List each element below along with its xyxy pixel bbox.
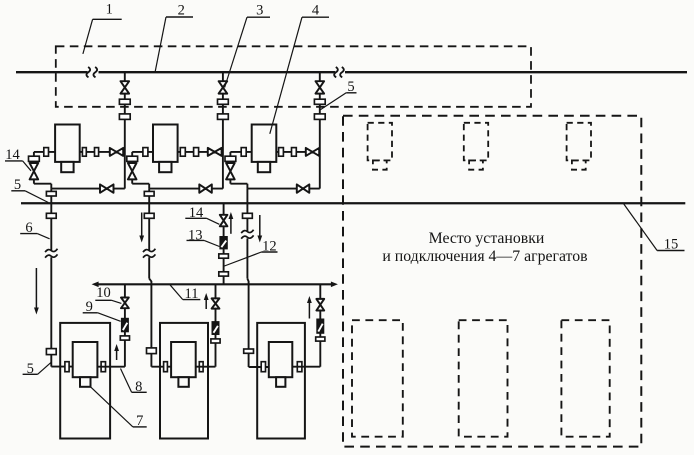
dashed future foundation outline 5 (bottom row) — [459, 320, 508, 437]
flow arrow down beside column 2 — [139, 213, 144, 243]
dashed future foundation outline 4 (bottom row) — [352, 320, 403, 437]
svg-text:и подключения 4—7 агрегатов: и подключения 4—7 агрегатов — [382, 248, 587, 265]
label 7 with leader to bottom pump 1 — [91, 387, 147, 429]
flange at bottom pump 1 suction — [65, 362, 69, 372]
flange above lower main on column 1 (pos.5) — [46, 191, 56, 196]
dashed future pump unit outline 6 (top row) — [567, 123, 591, 170]
bottom pump unit 2 foundation outline (pos.7 area) — [160, 323, 208, 439]
valve on bottom riser 1 (pos.10) — [121, 298, 129, 309]
valve on riser 2 (pos.3) — [219, 81, 228, 93]
flange pair on riser 3 upper (pos.5) — [314, 99, 325, 104]
flange at bottom pump 3 discharge — [297, 362, 302, 372]
pipe: discharge riser of bottom pump 2 — [196, 284, 216, 366]
pipe: suction side of pump 1 — [34, 151, 55, 153]
check valve on bypass column (pos.13) — [220, 237, 227, 249]
label 4 with leader to pump 3 — [270, 2, 329, 134]
flange on bypass column lower (pos.12) — [219, 272, 229, 276]
valve on bottom riser 3 (pos.10) — [316, 299, 324, 311]
pipe: bypass column from lower main to manifold — [223, 203, 225, 284]
bottom pump unit 1 foundation outline (pos.7 area) — [60, 323, 110, 439]
flange on left branch of unit 3 — [225, 156, 236, 161]
pipe: top pressure main, middle segment — [99, 71, 336, 73]
flange above lower main on column 2 — [144, 191, 154, 196]
valve on riser 1 (pos.3) — [121, 81, 130, 93]
label 5 bottom with leader to column 1 flange — [23, 361, 52, 377]
pump unit 3 body (pos.4) — [252, 125, 277, 173]
valve on left branch of unit 3 (pos.14) — [226, 163, 235, 179]
label 3 with leader to riser valve 2 — [225, 2, 270, 87]
flange on column 1 near bottom pump (pos.5) — [46, 349, 56, 355]
label 10 with leader to bottom riser 1 valve — [95, 285, 121, 304]
label 5 left with leader to lower-main junction — [11, 177, 48, 202]
pipe: collecting segment of unit 2 to riser — [149, 188, 223, 190]
pipe: left branch column of unit 3 — [230, 152, 247, 189]
label 9 with leader to bottom check valve 1 — [83, 299, 121, 321]
valve on discharge of pump 3 — [306, 148, 319, 156]
flange on bottom riser 1 — [120, 336, 129, 340]
flange at pump 3 discharge outer — [292, 148, 297, 157]
valve on left branch of unit 2 (pos.14) — [128, 163, 137, 179]
pipe: suction side of pump 3 — [230, 151, 251, 153]
label 14 middle with leader to bypass valve — [185, 205, 219, 225]
valve on discharge of pump 2 — [208, 148, 222, 156]
flange on left branch of unit 1 — [29, 156, 40, 161]
flange at bottom pump 2 discharge — [199, 362, 203, 372]
bottom pump unit 2 motor body — [171, 342, 196, 387]
svg-text:10: 10 — [96, 285, 111, 301]
annotation text: installation place for units 4-7 — [382, 230, 587, 265]
valve on collecting segment of unit 3 — [297, 184, 310, 192]
pump unit 1 body (pos.4) — [55, 125, 80, 173]
label 2 with leader to top main — [155, 2, 193, 71]
flange at pump 2 discharge outer — [194, 148, 199, 157]
pipe: down-column of unit 3 to bottom pump 3 — [247, 189, 268, 367]
svg-text:Место установки: Место установки — [429, 230, 545, 247]
flange pair on riser 1 lower (pos.5) — [119, 114, 130, 120]
pipe: collecting segment of unit 3 to riser — [247, 188, 319, 190]
pipe: discharge side of pump 3 — [276, 151, 320, 153]
svg-text:1: 1 — [106, 2, 113, 18]
dashed future pump unit outline 5 (top row) — [464, 123, 488, 170]
bottom pump unit 1 motor body — [73, 342, 98, 387]
pipe: suction side of pump 2 — [132, 151, 153, 153]
check valve on bottom riser 3 (pos.9) — [317, 319, 323, 333]
flange on bottom riser 3 — [316, 337, 325, 341]
flange at pump 2 suction — [143, 148, 148, 157]
flange below lower main on column 2 — [144, 213, 154, 218]
flange pair on riser 2 upper (pos.5) — [218, 99, 229, 104]
label 11 with leader to manifold — [170, 285, 200, 302]
bottom pump unit 3 motor body — [269, 342, 293, 387]
flange at pump 3 discharge inner — [279, 148, 284, 157]
valve on bottom riser 2 (pos.10) — [212, 298, 220, 308]
flange on column 3 near bottom pump — [244, 349, 254, 353]
flow arrow up beside bypass valve 14 — [229, 212, 234, 234]
pipe: top pressure main, right segment — [345, 71, 687, 73]
pipe: collecting segment of unit 1 to riser — [51, 188, 125, 190]
label 14 left with leader to branch valve — [5, 147, 31, 171]
flow arrow down (left feed line) — [34, 268, 39, 315]
check valve on bottom riser 2 (pos.9) — [212, 322, 218, 334]
pipe: lower suction main (15) — [21, 202, 685, 204]
flange on bottom riser 2 — [211, 339, 220, 343]
label 6 with leader to column 1 — [20, 220, 49, 239]
flange on left branch of unit 2 — [127, 156, 138, 161]
flange at pump 2 discharge inner — [180, 148, 185, 157]
flow arrow up beside bottom riser 1 — [114, 344, 119, 360]
svg-text:4: 4 — [312, 2, 320, 18]
label 5 top-right with leader to riser 3 flange — [320, 79, 356, 110]
flange at bottom pump 1 discharge — [101, 362, 105, 372]
valve on bypass column (pos.14) — [220, 215, 228, 227]
flange pair on riser 2 lower (pos.5) — [218, 114, 229, 120]
dashed boundary box 15-area (place for units 4-7) — [343, 116, 641, 447]
label 1 with leader to dashed box — [83, 2, 122, 54]
flange below lower main on column 1 — [46, 213, 56, 218]
flow arrow up beside bottom riser 3 — [307, 296, 312, 319]
pipe: riser 2 from top main — [222, 72, 224, 188]
pipe: left branch column of unit 1 — [34, 152, 51, 189]
pipe: down-column of unit 1 to bottom pump 1 — [51, 189, 72, 367]
dashed boundary box 1 (top manifold enclosure) — [56, 46, 531, 107]
valve on collecting segment of unit 1 — [100, 184, 114, 192]
flange pair on riser 1 upper (pos.5) — [119, 99, 130, 104]
pipe break symbol on top main (right) — [334, 67, 338, 77]
label 8 with leader to bottom discharge corner — [121, 369, 147, 395]
pipe: discharge side of pump 2 — [178, 151, 223, 153]
flange on bypass column upper (pos.12) — [219, 254, 229, 258]
pipe: down-column of unit 2 to bottom pump 2 — [149, 189, 171, 367]
flange below lower main on column 3 — [243, 213, 253, 218]
flange pair on riser 3 lower (pos.5) — [314, 114, 325, 120]
pipe break on column 3 — [241, 230, 253, 233]
pipe break on column 1 — [45, 249, 57, 252]
valve on discharge of pump 1 — [110, 148, 123, 156]
pipe: discharge side of pump 1 — [80, 151, 125, 153]
pipe: discharge riser of bottom pump 1 — [97, 284, 125, 366]
svg-text:2: 2 — [178, 2, 185, 18]
flange at pump 3 suction — [241, 148, 246, 157]
flange on column 2 near bottom pump — [147, 348, 157, 354]
flow arrow up beside bottom riser 2 — [204, 293, 209, 309]
dashed future foundation outline 6 (bottom row) — [561, 320, 609, 437]
label 13 with leader to bypass check valve — [187, 227, 220, 246]
flange at bottom pump 2 suction — [164, 362, 168, 372]
flange at pump 1 discharge outer — [95, 148, 99, 157]
flange at bottom pump 3 suction — [261, 362, 265, 372]
dashed future pump unit outline 4 (top row) — [368, 123, 392, 170]
valve on riser 3 (pos.3) — [316, 81, 325, 93]
valve on collecting segment of unit 2 — [199, 184, 212, 192]
svg-text:3: 3 — [256, 2, 263, 18]
pipe: riser 1 from top main — [124, 72, 126, 188]
pipe: bottom distribution manifold (11) with end arrows — [92, 282, 338, 288]
valve on left branch of unit 1 (pos.14) — [30, 163, 39, 179]
pipe break symbol on top main (left) — [86, 67, 90, 77]
pipe: discharge riser of bottom pump 3 — [292, 284, 320, 366]
check valve on bottom riser 1 (pos.9) — [122, 319, 128, 332]
label 15 with leader to lower main — [624, 204, 685, 252]
flange at pump 1 suction — [44, 148, 49, 157]
pipe: riser 3 from top main — [319, 72, 321, 188]
flange at pump 1 discharge inner — [82, 148, 86, 157]
pipe: top pressure main, left segment — [16, 71, 88, 73]
pipe: left branch column of unit 2 — [132, 152, 149, 189]
flow arrow down beside column 3 — [257, 215, 262, 243]
label 12 with leader to bypass flanges — [224, 239, 277, 266]
bottom pump unit 3 foundation outline (pos.7 area) — [257, 323, 305, 439]
pump unit 2 body (pos.4) — [153, 125, 178, 173]
pipe break on column 2 — [143, 249, 155, 252]
